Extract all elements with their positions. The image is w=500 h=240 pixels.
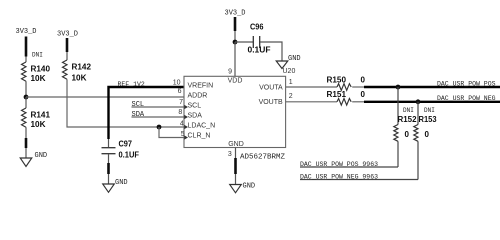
svg-text:0.1UF: 0.1UF	[248, 46, 271, 55]
svg-text:8: 8	[178, 109, 182, 116]
svg-text:VOUTB: VOUTB	[259, 99, 283, 106]
resistor R141	[22, 97, 51, 129]
svg-text:GND: GND	[288, 55, 301, 63]
resistor R142	[63, 60, 92, 82]
pin arrow SCL	[184, 105, 188, 109]
svg-text:3V3_D: 3V3_D	[16, 28, 37, 36]
node junction (R140/R141/ADDR)	[24, 95, 29, 100]
svg-text:LDAC_N: LDAC_N	[188, 123, 216, 130]
svg-text:DAC_USR_POW_NEG_9963: DAC_USR_POW_NEG_9963	[300, 173, 378, 180]
svg-text:ADDR: ADDR	[188, 93, 208, 100]
svg-text:DNI: DNI	[403, 107, 414, 114]
wire R152 down	[397, 141, 399, 167]
wire	[66, 52, 68, 60]
svg-text:9: 9	[228, 69, 232, 76]
svg-text:R153: R153	[419, 115, 438, 124]
capacitor C96	[248, 22, 271, 54]
svg-text:CLR_N: CLR_N	[188, 133, 211, 140]
svg-text:C96: C96	[250, 22, 264, 31]
svg-text:SDA: SDA	[132, 111, 145, 119]
wire	[25, 127, 27, 138]
ground (below C97)	[103, 163, 128, 192]
wire	[25, 57, 27, 63]
svg-text:R142: R142	[72, 62, 92, 71]
svg-text:2: 2	[289, 93, 293, 100]
svg-text:0.1UF: 0.1UF	[119, 151, 140, 160]
net DAC_USR_POW_NEG_9963	[300, 173, 418, 180]
wire GND pin 3	[235, 148, 237, 159]
svg-text:10K: 10K	[31, 120, 46, 129]
wire	[352, 101, 364, 103]
capacitor C97	[102, 139, 140, 160]
node junction (VDD / C96)	[233, 40, 238, 45]
wire VOUTA to R150	[286, 86, 337, 88]
svg-text:0: 0	[405, 130, 410, 139]
net DAC_USR_POW_POS (thick)	[364, 81, 500, 88]
svg-text:R150: R150	[327, 75, 347, 84]
net label SDA + wire to pin 8	[132, 111, 185, 119]
svg-text:VOUTA: VOUTA	[259, 84, 283, 91]
wire	[25, 81, 27, 97]
svg-text:U20: U20	[283, 68, 296, 75]
svg-text:6: 6	[178, 88, 182, 95]
svg-text:DAC_USR_POW_NEG: DAC_USR_POW_NEG	[437, 95, 496, 102]
ground (below R141)	[20, 138, 47, 167]
wire	[352, 86, 364, 88]
resistor R152	[394, 87, 417, 141]
svg-text:3: 3	[228, 151, 232, 158]
ground (below U20 pin 3)	[230, 183, 255, 193]
svg-text:4: 4	[180, 121, 184, 128]
svg-text:DAC_USR_POW_POS_9963: DAC_USR_POW_POS_9963	[300, 161, 378, 168]
wire ADDR net to pin 6	[26, 96, 184, 98]
pin arrow SDA	[184, 115, 188, 119]
svg-text:GND: GND	[115, 179, 128, 187]
svg-text:VREFIN: VREFIN	[188, 83, 214, 90]
resistor R140	[22, 52, 51, 84]
svg-text:REF_1V2: REF_1V2	[118, 81, 145, 88]
svg-text:DNI: DNI	[424, 107, 435, 114]
net label SCL + wire to pin 7	[132, 101, 185, 109]
wire VOUTB to R151	[286, 101, 337, 103]
wire VDD down	[234, 31, 236, 42]
wire to CLR_N pin 5	[159, 127, 184, 138]
wire R153 down	[417, 141, 419, 179]
svg-text:GND: GND	[35, 152, 48, 160]
node junction (LDAC/CLR tie)	[157, 125, 162, 130]
svg-text:SDA: SDA	[188, 113, 203, 120]
node junction (NEG / R153)	[416, 99, 421, 104]
pin arrow CLR_N	[184, 135, 188, 139]
node junction (POS / R152)	[396, 85, 401, 90]
svg-text:SCL: SCL	[132, 101, 145, 109]
op-amp/IC U20 AD5627BRMZ body	[184, 76, 286, 147]
svg-text:R141: R141	[31, 111, 51, 120]
net REF_1V2 (thick)	[109, 81, 185, 139]
wire to C96	[235, 41, 253, 43]
wire C96 to ground	[260, 42, 282, 61]
ground (near U20 label)	[276, 55, 300, 69]
svg-text:3V3_D: 3V3_D	[225, 9, 246, 17]
svg-text:R151: R151	[327, 90, 347, 99]
svg-text:R152: R152	[398, 115, 418, 124]
svg-text:3V3_D: 3V3_D	[57, 31, 78, 39]
svg-text:5: 5	[181, 131, 185, 138]
svg-text:10: 10	[173, 79, 181, 86]
svg-text:10K: 10K	[72, 73, 87, 82]
resistor R153	[414, 102, 437, 142]
svg-text:AD5627BRMZ: AD5627BRMZ	[240, 154, 286, 162]
net DAC_USR_POW_POS_9963	[300, 161, 398, 168]
svg-text:DNI: DNI	[32, 52, 43, 59]
wire LDAC_N / CLR_N net from R142 down and right	[67, 79, 184, 127]
resistor R150	[327, 75, 366, 90]
power 3V3_D (left column 1)	[16, 28, 37, 57]
svg-text:1: 1	[289, 79, 293, 86]
resistor R151	[327, 90, 366, 105]
svg-text:0: 0	[361, 90, 366, 99]
svg-text:0: 0	[361, 75, 366, 84]
pin arrow LDAC_N	[184, 125, 188, 129]
wire	[108, 154, 110, 163]
svg-text:DAC_USR_POW_POS: DAC_USR_POW_POS	[437, 81, 496, 88]
svg-text:VDD: VDD	[228, 77, 243, 84]
power 3V3_D (top, VDD)	[225, 9, 246, 31]
svg-text:10K: 10K	[31, 74, 46, 83]
wire pin 9	[234, 42, 236, 76]
net DAC_USR_POW_NEG (thick)	[364, 95, 500, 102]
power 3V3_D (column 2)	[57, 31, 78, 53]
svg-text:R140: R140	[31, 65, 51, 74]
svg-text:7: 7	[179, 99, 183, 106]
svg-text:GND: GND	[228, 141, 244, 148]
svg-text:SCL: SCL	[188, 103, 202, 110]
svg-text:C97: C97	[119, 140, 133, 149]
svg-text:0: 0	[425, 130, 430, 139]
svg-text:GND: GND	[243, 183, 256, 191]
